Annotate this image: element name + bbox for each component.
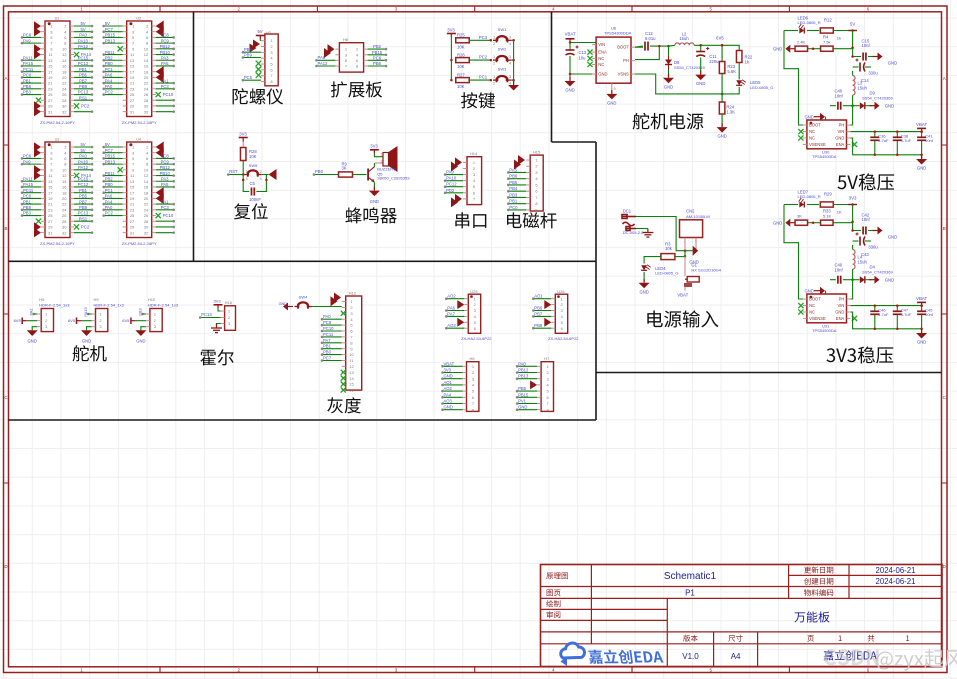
svg-text:PB6: PB6 (534, 306, 543, 311)
wire (156, 169, 174, 171)
label EM rod (507, 212, 557, 228)
svg-text:3: 3 (246, 177, 248, 181)
wire (104, 203, 123, 205)
svg-text:PB15: PB15 (105, 33, 116, 38)
CSDN watermark (824, 649, 879, 665)
svg-text:LED-0805_G: LED-0805_G (750, 85, 773, 90)
svg-text:24: 24 (62, 86, 67, 91)
wire (74, 232, 92, 234)
capacitor C41 10nf (921, 132, 923, 137)
wire PC5 (243, 79, 261, 81)
wire (74, 203, 92, 205)
wire (74, 209, 92, 211)
port arrow (34, 228, 41, 238)
svg-text:PA15: PA15 (23, 182, 34, 187)
wire PB13 (517, 378, 537, 380)
wire emitter to gnd (373, 182, 375, 189)
wire (74, 180, 92, 182)
svg-text:ENA: ENA (598, 50, 607, 55)
svg-text:VSENSE: VSENSE (809, 316, 826, 321)
svg-text:19: 19 (130, 196, 135, 201)
svg-text:PA5: PA5 (161, 61, 169, 66)
svg-text:22: 22 (62, 202, 67, 207)
port arrow (156, 21, 164, 32)
wire (156, 111, 174, 113)
wire AO2 (446, 298, 464, 300)
wire (104, 88, 123, 90)
svg-text:PA1: PA1 (161, 199, 169, 204)
wire (156, 88, 174, 90)
ground (ctop) (873, 230, 878, 232)
wire AO1 (533, 298, 551, 300)
svg-text:PB12: PB12 (518, 368, 529, 373)
svg-text:1: 1 (246, 170, 248, 174)
svg-text:PA6: PA6 (447, 306, 455, 311)
svg-text:14: 14 (349, 376, 354, 381)
svg-text:PA11: PA11 (23, 176, 33, 181)
svg-text:5V: 5V (80, 148, 85, 153)
svg-text:15uh: 15uh (858, 86, 868, 91)
switch SW3 (493, 79, 497, 81)
svg-text:2: 2 (260, 170, 262, 174)
svg-text:HDR-F-2.54_1x3: HDR-F-2.54_1x3 (39, 302, 70, 307)
svg-text:PA12: PA12 (78, 44, 89, 49)
svg-text:PB9: PB9 (244, 52, 253, 57)
ground (SW4) (288, 306, 293, 308)
inductor L4 15uh (852, 245, 854, 250)
svg-text:10K: 10K (457, 84, 465, 89)
svg-text:5V: 5V (80, 27, 85, 32)
wire rail down (852, 205, 854, 231)
connector H8 (expansion) (339, 43, 363, 72)
svg-text:SS54_CT420369: SS54_CT420369 (862, 96, 893, 101)
svg-text:1: 1 (493, 35, 495, 39)
wire VIN rail (851, 131, 922, 133)
svg-text:PB2: PB2 (105, 55, 114, 60)
wire (156, 232, 174, 234)
svg-text:13: 13 (349, 370, 354, 375)
svg-text:PB15: PB15 (518, 392, 529, 397)
ground (LED4) (643, 279, 645, 283)
svg-text:PC3: PC3 (161, 84, 170, 89)
wire (156, 220, 174, 222)
svg-text:PA8: PA8 (318, 55, 326, 60)
wire (22, 94, 41, 96)
svg-text:3V3: 3V3 (370, 144, 378, 149)
wire PB15 (368, 54, 386, 56)
svg-text:16: 16 (144, 185, 149, 190)
svg-text:10nf: 10nf (862, 217, 871, 222)
svg-text:30: 30 (62, 225, 67, 230)
svg-text:330u: 330u (868, 71, 878, 76)
no-connect X (36, 98, 41, 103)
svg-text:22: 22 (144, 202, 149, 207)
wire 3V3 rail (buttons) (450, 34, 452, 81)
wire pin3 to gnd (32, 327, 37, 331)
wire BOOT left (784, 223, 803, 299)
wire (74, 36, 92, 38)
wire (22, 186, 41, 188)
wire (74, 31, 92, 33)
wire PC9 (322, 324, 342, 326)
wire AO1 (443, 384, 463, 386)
svg-text:5V: 5V (80, 142, 85, 147)
wire (104, 31, 123, 33)
wire R22 to LED5 (738, 63, 740, 80)
svg-text:PA3: PA3 (161, 55, 169, 60)
svg-text:5.6K: 5.6K (727, 69, 736, 74)
wire SW4 to H12 (312, 306, 342, 308)
port arrow (34, 107, 41, 117)
svg-text:15uh: 15uh (679, 36, 689, 41)
svg-text:14: 14 (62, 58, 67, 63)
svg-text:6V5: 6V5 (716, 36, 724, 41)
label buttons (461, 92, 495, 108)
port arrow (156, 26, 164, 37)
wire PC10 (322, 330, 342, 332)
svg-text:AO1: AO1 (444, 380, 453, 385)
wire PA5 (508, 171, 526, 173)
no-connect X (118, 167, 123, 172)
wire (74, 215, 92, 217)
no-connect X chip (798, 303, 803, 308)
connector H2 ZX-PM2.54-2-16PY (127, 21, 152, 117)
wire (22, 36, 41, 38)
svg-text:RS1: RS1 (79, 216, 88, 221)
svg-text:330u: 330u (868, 245, 878, 250)
svg-text:B: B (4, 226, 7, 231)
wire PC11 (322, 336, 342, 338)
wire (104, 175, 123, 177)
wire (74, 186, 92, 188)
svg-text:6V5: 6V5 (122, 318, 130, 323)
IC U31 TPS54500DA (807, 294, 847, 323)
svg-text:ZX-HA2.54-6P22: ZX-HA2.54-6P22 (548, 336, 579, 341)
svg-text:12: 12 (62, 52, 67, 57)
resistor R27 10K (456, 78, 470, 83)
svg-text:PC12: PC12 (78, 61, 89, 66)
svg-text:GND: GND (444, 374, 453, 379)
port arrow EM rod (518, 155, 525, 165)
wire PA0 (517, 365, 537, 367)
wire (74, 152, 92, 154)
wire (104, 71, 123, 73)
wire reset right drop (256, 175, 266, 192)
no-connect X pins 5-7 (gyro) (256, 61, 262, 67)
svg-text:27: 27 (48, 219, 53, 224)
svg-text:PA1: PA1 (161, 78, 169, 83)
svg-text:PA0: PA0 (79, 33, 87, 38)
svg-text:10u: 10u (579, 56, 587, 61)
no-connect X (118, 46, 123, 51)
label hall (200, 349, 233, 365)
svg-text:1: 1 (493, 75, 495, 79)
title block header texts (546, 573, 568, 580)
ground (left row2) (790, 222, 795, 224)
wire (104, 197, 123, 199)
svg-text:3: 3 (509, 55, 511, 59)
wire pin1 (34, 313, 38, 315)
label power input (647, 310, 718, 327)
svg-text:GND: GND (835, 310, 844, 315)
svg-text:28: 28 (144, 98, 149, 103)
svg-text:PB9: PB9 (79, 205, 88, 210)
svg-text:PC12: PC12 (446, 182, 457, 187)
svg-text:VSENSE: VSENSE (809, 142, 826, 147)
svg-text:DC1: DC1 (623, 209, 632, 214)
svg-text:AO2: AO2 (447, 294, 456, 299)
svg-text:U25: U25 (470, 289, 478, 294)
wire (74, 48, 92, 50)
svg-text:VBAT: VBAT (677, 293, 688, 298)
wire VSNS feedback (635, 74, 722, 94)
wire PB12 (517, 372, 537, 374)
wire (156, 209, 174, 211)
svg-text:2: 2 (493, 62, 495, 66)
wire PC0 (508, 209, 526, 211)
svg-text:PA7: PA7 (447, 311, 455, 316)
svg-text:PC0: PC0 (509, 205, 518, 210)
svg-text:PB8: PB8 (23, 84, 32, 89)
svg-text:3K: 3K (797, 214, 802, 219)
svg-text:PA0: PA0 (79, 154, 87, 159)
capacitor 330u (851, 229, 854, 232)
resistor R29 1K (820, 202, 833, 207)
port arrow (156, 193, 164, 204)
capacitor C38 4.7uF (896, 132, 898, 137)
svg-text:BOOT: BOOT (809, 123, 821, 128)
wire (74, 71, 92, 73)
port arrow (156, 72, 164, 83)
svg-text:2024-06-21: 2024-06-21 (876, 566, 916, 575)
svg-text:3V3: 3V3 (239, 131, 247, 136)
svg-text:15: 15 (48, 64, 53, 69)
svg-text:32: 32 (144, 109, 149, 114)
switch SW5 (244, 174, 248, 176)
svg-text:18: 18 (62, 69, 67, 74)
capacitor C45 10nf (921, 306, 923, 311)
svg-text:26: 26 (62, 92, 67, 97)
wire PA0 (322, 318, 342, 320)
wire (22, 163, 41, 165)
svg-text:AM-1015B-M: AM-1015B-M (686, 214, 710, 219)
wire SW5 to port (261, 174, 268, 176)
svg-text:PA10: PA10 (78, 159, 89, 164)
power flag 3V3 (buttons) (447, 33, 456, 35)
svg-text:4: 4 (509, 42, 511, 46)
svg-text:PB11: PB11 (105, 50, 116, 55)
svg-text:PA15: PA15 (83, 307, 88, 316)
no-connect X (156, 92, 161, 97)
svg-text:U1: U1 (55, 17, 60, 21)
wire PC13 (200, 317, 220, 319)
svg-text:PB7: PB7 (534, 311, 543, 316)
svg-text:PC10: PC10 (323, 326, 334, 331)
svg-text:1: 1 (493, 55, 495, 59)
wire switch to gnd rail (511, 39, 514, 41)
wire PH to L (851, 277, 853, 300)
wire (104, 215, 123, 217)
wire to PC3 (469, 39, 491, 41)
wire PB7 (533, 315, 551, 317)
wire (104, 163, 123, 165)
resistor R22 1k (736, 51, 742, 63)
svg-text:PC2: PC2 (105, 211, 114, 216)
wire PB6 (533, 310, 551, 312)
svg-text:PB1: PB1 (323, 344, 332, 349)
svg-text:21: 21 (48, 202, 53, 207)
svg-text:28: 28 (62, 98, 67, 103)
wire (74, 157, 92, 159)
wire 3V3 to R28 (242, 142, 244, 148)
wire (74, 82, 92, 84)
resistor R4 7.5k (821, 46, 834, 51)
svg-text:GND: GND (885, 103, 894, 108)
wire (156, 157, 174, 159)
svg-text:GND: GND (917, 166, 926, 171)
svg-text:3V3: 3V3 (213, 299, 221, 304)
svg-text:NC: NC (809, 310, 815, 315)
junction node (power input) (684, 249, 687, 252)
wire (156, 203, 174, 205)
svg-text:8.01u: 8.01u (645, 36, 656, 41)
svg-text:PB1: PB1 (79, 188, 88, 193)
no-connect X H12 pin3 (341, 311, 346, 316)
wire pin2 (27, 320, 38, 322)
capacitor C11 220u (699, 44, 702, 47)
inductor L2 15uh (669, 44, 675, 47)
wire (74, 197, 92, 199)
wire GND (443, 409, 463, 411)
svg-text:AO3: AO3 (444, 399, 453, 404)
svg-text:3: 3 (509, 35, 511, 39)
svg-text:16: 16 (62, 64, 67, 69)
wire (104, 157, 123, 159)
svg-text:ZX-PM2.54-2-16PY: ZX-PM2.54-2-16PY (122, 120, 157, 125)
svg-text:HDR-F-2.54_1x3: HDR-F-2.54_1x3 (148, 302, 179, 307)
connector H15 (EM rod) (530, 155, 543, 211)
svg-text:4.7uF: 4.7uF (901, 138, 912, 143)
port arrow (34, 27, 41, 37)
wire servo rail to R22 (722, 45, 739, 51)
wire PB15 (517, 396, 537, 398)
svg-text:SS54_CT420369: SS54_CT420369 (862, 270, 893, 275)
capacitor C15 10nf (853, 56, 861, 58)
ground (135, 330, 146, 336)
svg-text:H14: H14 (470, 151, 478, 156)
connector H4 ZX-PM2.54-2-16PY (127, 142, 152, 238)
svg-text:GND: GND (664, 84, 673, 89)
wire pin3 gnd (hall) (217, 324, 221, 327)
svg-text:15: 15 (349, 382, 354, 387)
svg-text:GND: GND (835, 136, 844, 141)
svg-text:GND: GND (717, 134, 726, 139)
svg-text:PC3: PC3 (479, 35, 488, 40)
svg-text:A: A (943, 76, 946, 81)
svg-text:PA5: PA5 (161, 182, 169, 187)
svg-text:C13: C13 (579, 50, 587, 55)
svg-text:12: 12 (62, 173, 67, 178)
wire PB4 (508, 190, 526, 192)
svg-text:24: 24 (144, 207, 149, 212)
svg-text:V1.0: V1.0 (682, 652, 699, 661)
wire PA7 (322, 342, 342, 344)
svg-text:P1: P1 (685, 589, 695, 598)
svg-text:PB9: PB9 (79, 84, 88, 89)
svg-text:PB2: PB2 (373, 44, 382, 49)
svg-text:30: 30 (144, 225, 149, 230)
wire (22, 42, 41, 44)
svg-text:20: 20 (144, 75, 149, 80)
switch SW4 (295, 306, 299, 308)
no-connect X (36, 219, 41, 224)
wire R9 to base (353, 174, 367, 176)
svg-text:PC2: PC2 (105, 90, 114, 95)
resistor R12 1k (820, 28, 833, 33)
svg-text:15uh: 15uh (858, 260, 868, 265)
port arrow (34, 165, 41, 175)
svg-text:29: 29 (48, 225, 53, 230)
svg-text:18: 18 (144, 190, 149, 195)
svg-text:C5: C5 (250, 181, 256, 186)
svg-text:CN2: CN2 (686, 209, 695, 214)
no-connect X H12 bottom pins (341, 370, 346, 375)
wire node down (684, 251, 686, 257)
svg-text:R27: R27 (457, 73, 465, 78)
svg-text:PC10: PC10 (163, 92, 174, 97)
resistor R11 2.4K (795, 46, 808, 51)
svg-text:2024-06-21: 2024-06-21 (876, 577, 916, 586)
svg-text:PA10: PA10 (78, 38, 89, 43)
capacitor C36 4.7uF (874, 132, 876, 137)
wire (156, 105, 174, 107)
svg-text:16: 16 (349, 388, 354, 393)
svg-text:PC8: PC8 (161, 154, 170, 159)
port arrow (156, 142, 164, 153)
svg-text:24: 24 (62, 207, 67, 212)
svg-text:PB1: PB1 (79, 67, 88, 72)
wire PA6 (446, 310, 464, 312)
wire PA4 (443, 396, 463, 398)
svg-text:15: 15 (130, 185, 135, 190)
svg-text:10nf: 10nf (925, 312, 934, 317)
wire (74, 146, 92, 148)
svg-text:23: 23 (130, 86, 135, 91)
wire pin3 to gnd (141, 327, 146, 331)
wire (74, 94, 92, 96)
wire (104, 94, 123, 96)
svg-text:12: 12 (144, 52, 149, 57)
svg-text:32: 32 (62, 109, 67, 114)
wire PC6 (368, 59, 386, 61)
svg-text:14: 14 (144, 58, 149, 63)
svg-text:22: 22 (62, 81, 67, 86)
svg-text:PC7: PC7 (105, 27, 114, 32)
label servo (73, 345, 107, 361)
ground (C11) (700, 71, 702, 75)
svg-text:5.1K: 5.1K (823, 214, 832, 219)
ground (buzzer) (373, 187, 375, 191)
title block table (541, 565, 943, 667)
svg-text:17: 17 (48, 190, 53, 195)
wire (104, 25, 123, 27)
svg-text:17: 17 (130, 190, 135, 195)
svg-text:PC2: PC2 (81, 224, 90, 229)
wire PA9 (445, 174, 463, 176)
transistor Q5 S8050 (367, 169, 369, 181)
wire LED row (784, 204, 798, 206)
wire PC12 (445, 186, 463, 188)
